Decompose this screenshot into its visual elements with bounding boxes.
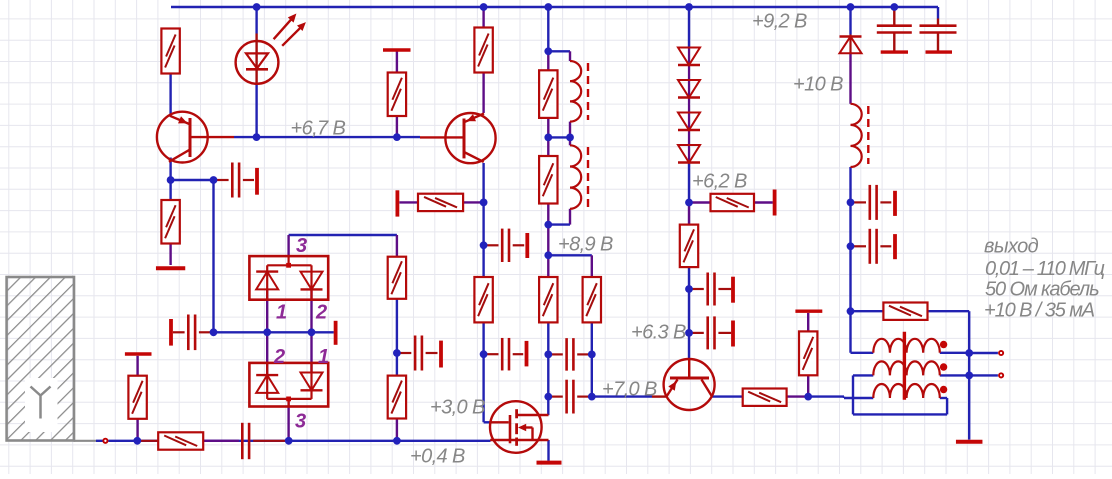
svg-text:+10 В / 35 мА: +10 В / 35 мА [984,300,1095,322]
svg-text:+7,0 В: +7,0 В [602,379,657,401]
svg-text:+10 В: +10 В [793,74,843,96]
svg-text:+3,0 В: +3,0 В [430,397,485,419]
svg-text:0,01 – 110 МГц: 0,01 – 110 МГц [985,258,1105,280]
svg-text:+6.3 В: +6.3 В [631,322,686,344]
svg-text:+9,2 В: +9,2 В [752,11,807,33]
svg-text:3: 3 [295,411,306,433]
svg-text:50 Ом кабель: 50 Ом кабель [985,279,1099,301]
svg-text:1: 1 [318,346,329,368]
svg-text:2: 2 [273,346,285,368]
svg-text:1: 1 [276,302,287,324]
svg-text:+0,4 В: +0,4 В [410,446,465,468]
svg-text:+8,9 В: +8,9 В [558,234,613,256]
svg-text:2: 2 [315,302,327,324]
svg-text:+6,2 В: +6,2 В [692,171,747,193]
svg-text:+6,7 В: +6,7 В [291,118,346,140]
svg-text:выход: выход [984,236,1039,258]
svg-text:3: 3 [296,235,307,257]
